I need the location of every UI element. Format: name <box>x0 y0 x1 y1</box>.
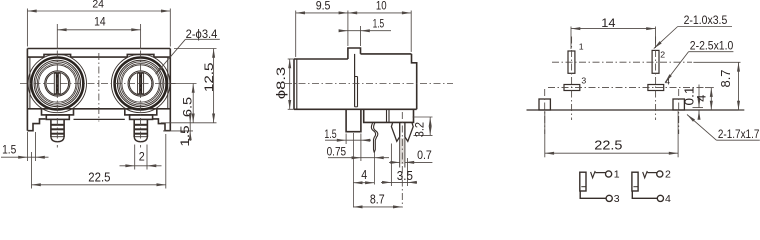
svg-text:4: 4 <box>361 168 367 182</box>
svg-text:ϕ8.3: ϕ8.3 <box>274 67 288 99</box>
svg-text:1.5: 1.5 <box>178 125 192 147</box>
svg-text:3.2: 3.2 <box>413 122 427 138</box>
svg-text:4: 4 <box>665 193 671 205</box>
svg-text:2-1.7x1.7: 2-1.7x1.7 <box>718 127 760 141</box>
svg-text:4: 4 <box>695 94 709 101</box>
svg-text:10: 10 <box>376 1 387 13</box>
svg-text:2: 2 <box>139 150 145 164</box>
svg-text:1: 1 <box>614 168 620 180</box>
svg-text:0.75: 0.75 <box>327 145 347 159</box>
svg-text:8.7: 8.7 <box>719 69 733 87</box>
svg-text:14: 14 <box>94 17 106 29</box>
svg-text:8.7: 8.7 <box>370 192 385 206</box>
svg-text:2-2.5x1.0: 2-2.5x1.0 <box>690 38 734 52</box>
svg-text:12.5: 12.5 <box>202 62 216 92</box>
svg-text:1.5: 1.5 <box>324 127 336 141</box>
svg-text:2-ϕ3.4: 2-ϕ3.4 <box>186 27 218 41</box>
svg-text:9.5: 9.5 <box>316 1 331 13</box>
svg-text:1.5: 1.5 <box>2 143 16 157</box>
svg-text:3: 3 <box>581 76 586 86</box>
svg-text:1.5: 1.5 <box>373 19 385 31</box>
svg-text:2-1.0x3.5: 2-1.0x3.5 <box>684 13 728 27</box>
svg-text:22.5: 22.5 <box>594 138 622 153</box>
svg-text:2: 2 <box>660 50 665 60</box>
svg-text:3: 3 <box>614 193 620 205</box>
svg-text:24: 24 <box>92 0 104 10</box>
svg-text:0.7: 0.7 <box>417 148 432 162</box>
svg-text:3.5: 3.5 <box>397 169 413 183</box>
svg-text:6.5: 6.5 <box>181 96 195 117</box>
svg-text:2: 2 <box>665 168 671 180</box>
svg-text:22.5: 22.5 <box>88 170 110 184</box>
svg-text:14: 14 <box>601 16 616 30</box>
svg-text:1: 1 <box>579 42 584 52</box>
